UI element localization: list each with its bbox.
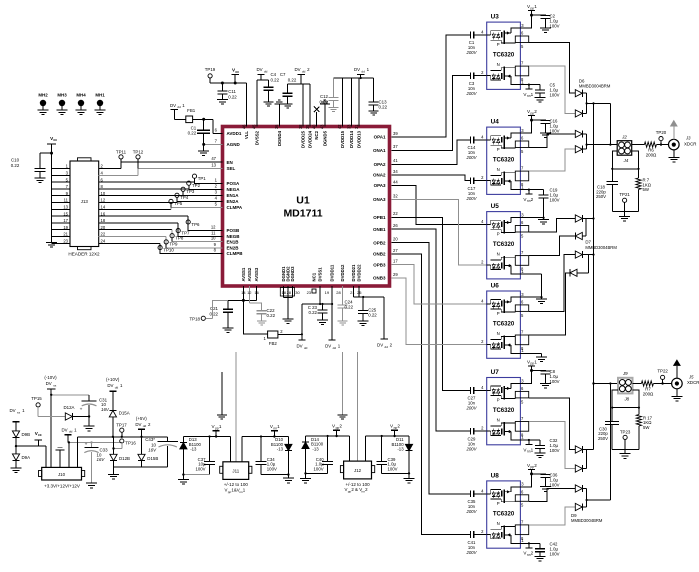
- svg-text:DV: DV: [294, 67, 300, 72]
- wire D9c/d bus to v2b to J9: [586, 489, 588, 508]
- ground (C2): [540, 27, 551, 29]
- driver U3 TC6320: [481, 14, 529, 90]
- wire Vpp2 top rail (J12 left): [306, 435, 350, 437]
- svg-text:N: N: [497, 167, 500, 172]
- diode D9a MMBD3004BRM: [575, 446, 582, 453]
- svg-text:TP8: TP8: [175, 236, 184, 241]
- J13 even pin numbers: [101, 164, 106, 244]
- svg-text:DVDD12: DVDD12: [340, 264, 345, 282]
- svg-text:DVDD14: DVDD14: [349, 130, 354, 148]
- svg-text:13: 13: [63, 205, 68, 210]
- svg-text:DV: DV: [61, 427, 67, 432]
- svg-text:2: 2: [534, 463, 537, 468]
- diode D15B: [138, 437, 158, 467]
- svg-text:D12B: D12B: [119, 456, 130, 461]
- wire J13 pin 19 to bus: [52, 229, 71, 231]
- diode D12B: [110, 437, 130, 467]
- capacitor C11 0.22: [217, 82, 237, 100]
- svg-text:U5: U5: [491, 203, 500, 210]
- wire TP21 rail: [612, 211, 638, 213]
- svg-text:DV: DV: [377, 343, 383, 348]
- svg-text:dd: dd: [264, 70, 268, 74]
- svg-text:ss: ss: [17, 410, 21, 414]
- ground stub (left of J11): [217, 372, 227, 419]
- svg-text:100V: 100V: [550, 482, 560, 487]
- svg-text:21: 21: [350, 290, 355, 295]
- capacitor C1 10n 200V: [465, 32, 486, 56]
- svg-text:D9A: D9A: [22, 455, 31, 460]
- capacitor C5 1.0u 100V: [535, 83, 560, 98]
- svg-text:0.22: 0.22: [271, 77, 280, 82]
- svg-text:(-10V): (-10V): [44, 375, 57, 380]
- wire supply bottom rail: [114, 466, 168, 468]
- svg-text:TP22: TP22: [657, 369, 668, 374]
- svg-text:P: P: [497, 232, 500, 237]
- svg-text:-13: -13: [190, 447, 197, 452]
- svg-text:5W: 5W: [643, 425, 650, 430]
- svg-text:C1: C1: [191, 125, 197, 130]
- svg-text:TC6320: TC6320: [493, 322, 515, 328]
- diode D7a MMBD3004BRM: [575, 215, 582, 222]
- svg-text:dd: dd: [177, 105, 181, 109]
- wire CLMPB (J13-24 to U1-8): [99, 242, 160, 244]
- svg-text:AVDD1: AVDD1: [227, 131, 242, 136]
- svg-text:DVSS1: DVSS1: [318, 267, 323, 282]
- svg-text:AVSS3: AVSS3: [254, 267, 259, 281]
- svg-text:200V: 200V: [465, 91, 477, 96]
- wire node bus v1: [593, 103, 595, 449]
- svg-text:100V: 100V: [267, 466, 277, 471]
- wire EN2B (J13-22 to U1-9): [99, 236, 167, 238]
- test point TP3: [181, 187, 195, 195]
- wire AVSS to FB2: [243, 300, 267, 334]
- svg-text:12: 12: [211, 224, 216, 229]
- svg-text:TC6320: TC6320: [493, 158, 515, 164]
- svg-text:+: +: [85, 443, 88, 448]
- svg-text:U8: U8: [491, 472, 500, 479]
- diode D7d MMBD3004BRM: [570, 269, 577, 276]
- svg-text:28: 28: [336, 290, 341, 295]
- svg-text:TP20: TP20: [656, 130, 667, 135]
- ground (C5): [539, 93, 541, 98]
- power flag DVdd1 (top right): [354, 67, 370, 78]
- svg-text:100V: 100V: [195, 466, 205, 471]
- test point TP15: [31, 396, 65, 417]
- svg-text:0.22: 0.22: [228, 94, 237, 99]
- wire U6 pin1 to ground: [520, 353, 541, 355]
- wire OPB2 (U1-20): [391, 243, 470, 494]
- svg-text:POSB: POSB: [227, 228, 241, 233]
- wire J13 pin 17 to bus: [52, 222, 71, 224]
- svg-text:N: N: [497, 331, 500, 336]
- diode D15A: [109, 411, 129, 438]
- wire DVDD15/14/13 rail: [333, 77, 373, 79]
- svg-text:100V: 100V: [550, 129, 560, 134]
- svg-text:100V: 100V: [550, 448, 560, 453]
- svg-text:P: P: [497, 397, 500, 402]
- capacitor C31 10 16V (polarized): [80, 395, 110, 417]
- wire U6 P-output to D7: [529, 255, 575, 312]
- U1 left pin numbers: [211, 128, 218, 253]
- wire Vnn1 top rail (J11 right): [241, 437, 243, 462]
- power flag DVdd2 (+5V) / diode D15B: [135, 416, 151, 438]
- wire C37/D13 bottom to ground: [183, 474, 209, 476]
- U1 top pin names: [244, 130, 362, 148]
- svg-text:N: N: [497, 418, 500, 423]
- svg-text:+/-12 to 100: +/-12 to 100: [346, 482, 371, 487]
- svg-text:15: 15: [63, 211, 68, 216]
- driver U4 TC6320: [481, 119, 529, 195]
- diode D6d MMBD3004BRM: [575, 146, 582, 153]
- capacitor C29 10n 200V: [465, 428, 486, 452]
- diode D9B: [12, 431, 30, 446]
- power flag Vnn1 (J11): [270, 424, 280, 436]
- svg-text:TP15: TP15: [31, 396, 42, 401]
- test point TP17: [116, 422, 127, 438]
- ground (C12): [328, 107, 338, 109]
- ground (D10): [287, 475, 289, 479]
- svg-text:0.22: 0.22: [267, 313, 276, 318]
- capacitor C10 0.22: [34, 152, 53, 178]
- capacitor C41 10n 200V: [465, 531, 486, 555]
- svg-text:NEGA: NEGA: [227, 187, 241, 192]
- svg-text:16V: 16V: [148, 447, 157, 452]
- svg-text:(+5V): (+5V): [136, 416, 147, 421]
- wire C31 top (gray): [51, 394, 89, 396]
- wire J13 pin 7 to bus: [52, 188, 71, 190]
- mounting hole MH3: [57, 93, 68, 115]
- capacitor C35 10n 200V: [465, 490, 486, 514]
- diode D9A: [12, 446, 30, 468]
- wire J13 pin 15 to bus: [52, 215, 71, 217]
- svg-text:P: P: [497, 311, 500, 316]
- svg-text:1: 1: [531, 447, 534, 452]
- svg-text:EN2A: EN2A: [227, 199, 240, 204]
- wire U4 pin1 / power flag Vnn2: [520, 189, 543, 204]
- svg-text:2: 2: [531, 551, 534, 556]
- svg-text:21: 21: [63, 232, 68, 237]
- svg-text:OPA3: OPA3: [374, 183, 386, 188]
- svg-text:OPA2: OPA2: [374, 162, 386, 167]
- U1 top pin numbers: [241, 124, 359, 129]
- power flag DVdd1 (bottom): [325, 340, 341, 350]
- svg-text:AVSS2: AVSS2: [247, 267, 252, 281]
- svg-text:J5: J5: [688, 375, 694, 380]
- svg-text:DV: DV: [135, 422, 141, 427]
- svg-text:cc: cc: [38, 433, 42, 437]
- svg-text:TP21: TP21: [619, 192, 630, 197]
- svg-text:TP9: TP9: [169, 242, 178, 247]
- diode D12A: [64, 405, 91, 420]
- power flag DVdd1 (+10V) / diode D15A: [106, 377, 123, 411]
- svg-text:200Ω: 200Ω: [646, 153, 657, 158]
- wire DVDD25/DVDD24 pins38/35: [288, 83, 310, 85]
- wire J13 pin 5 to bus: [52, 181, 71, 183]
- svg-text:XDCR: XDCR: [684, 141, 696, 146]
- svg-text:C43*: C43*: [145, 437, 155, 442]
- wire DVSS1/DVDD11 rail: [302, 303, 332, 305]
- wire pin1 / power flag Vnn1: [520, 84, 540, 99]
- svg-text:TP2: TP2: [192, 183, 201, 188]
- U1 right pin numbers: [393, 131, 398, 277]
- svg-text:39: 39: [393, 131, 398, 136]
- svg-text:SEL: SEL: [227, 166, 236, 171]
- svg-text:200V: 200V: [465, 155, 477, 160]
- svg-text:1: 1: [531, 92, 534, 97]
- svg-text:19: 19: [325, 290, 330, 295]
- test point TP5: [169, 199, 183, 207]
- capacitor C22 0.22: [257, 308, 276, 321]
- svg-text:200V: 200V: [465, 550, 477, 555]
- svg-text:J9: J9: [622, 371, 628, 376]
- svg-text:EN: EN: [227, 160, 233, 165]
- wire ONB3 (U1-29): [391, 278, 486, 345]
- diode D7b MMBD3004BRM: [575, 232, 582, 239]
- svg-text:1: 1: [534, 359, 537, 364]
- wire D6 cathode bus (c/d) to J2: [586, 134, 588, 149]
- ground (C18/R7): [624, 212, 626, 217]
- svg-text:16V: 16V: [101, 407, 110, 412]
- ground (C30/R17): [624, 450, 626, 454]
- ground (C31/D12A): [88, 417, 90, 427]
- wire POSB (J13-16 to U1-12): [99, 215, 189, 217]
- ground (C7): [283, 103, 293, 105]
- resistor R7 200ohm: [633, 381, 672, 397]
- wire D6 cathode bus (a/b): [586, 93, 588, 113]
- svg-text:dd: dd: [143, 424, 147, 428]
- ground (C33): [86, 482, 97, 484]
- wire J13 pin 9 to bus: [52, 195, 71, 197]
- svg-text:TP5: TP5: [174, 201, 183, 206]
- svg-text:DVDD22: DVDD22: [357, 264, 362, 282]
- svg-text:CLMPB: CLMPB: [227, 251, 244, 256]
- capacitor C19 1.0u 100V: [539, 188, 560, 203]
- svg-text:23: 23: [307, 290, 312, 295]
- diode D14 B1100-13: [302, 436, 324, 473]
- svg-text:dd: dd: [361, 70, 365, 74]
- wire OPA3 (U1-44): [391, 186, 486, 225]
- svg-text:0.22: 0.22: [288, 77, 297, 82]
- svg-text:13: 13: [211, 163, 216, 168]
- test point TP12: [133, 150, 144, 169]
- power flag Vpp2 (C36): [520, 463, 537, 487]
- svg-text:100V: 100V: [550, 379, 560, 384]
- wire J12 center pin (gray): [357, 352, 359, 461]
- ground (C32): [539, 448, 541, 453]
- svg-text:(+10V): (+10V): [106, 377, 120, 382]
- svg-text:200V: 200V: [465, 50, 477, 55]
- svg-text:0.22: 0.22: [209, 312, 218, 317]
- svg-text:TC6320: TC6320: [493, 242, 515, 248]
- wire DVDD11 to DVdd1 flag: [331, 286, 333, 340]
- wire DVDD21/22 to C25/DVdd2: [353, 286, 355, 297]
- svg-text:OPB2: OPB2: [373, 240, 386, 245]
- svg-text:C7: C7: [280, 72, 286, 77]
- capacitor C24 0.22 (DVDD12): [338, 286, 354, 321]
- capacitor C3 10n 200V: [465, 72, 486, 96]
- svg-text:NC2: NC2: [314, 130, 319, 139]
- ground (D9A): [11, 467, 22, 469]
- wire gray rail DVdd1: [68, 441, 122, 443]
- svg-text:12: 12: [101, 198, 106, 203]
- svg-text:HEADER 12X2: HEADER 12X2: [68, 252, 100, 257]
- svg-text:28: 28: [287, 290, 292, 295]
- test point TP6: [186, 220, 200, 231]
- svg-text:DVDD21: DVDD21: [351, 264, 356, 282]
- capacitor C23 0.22: [308, 304, 328, 320]
- svg-text:17: 17: [393, 259, 398, 264]
- svg-text:20: 20: [101, 225, 106, 230]
- svg-text:OPA1: OPA1: [374, 135, 386, 140]
- svg-text:0.22: 0.22: [345, 305, 354, 310]
- wire D7a/b bus to v1: [585, 219, 587, 237]
- wire OPA2 (U1-41): [391, 140, 470, 164]
- resistor R17 1K 5W: [636, 408, 652, 450]
- svg-text:DGND3: DGND3: [290, 266, 295, 282]
- svg-text:TC6320: TC6320: [493, 53, 515, 59]
- svg-text:1: 1: [277, 424, 280, 429]
- no-connect box NC1: [312, 289, 316, 293]
- arrow marker (XDCR B): [673, 359, 681, 378]
- wire U7 N-output to D9 (gray): [529, 422, 575, 469]
- ground (C13): [369, 110, 379, 112]
- svg-text:27: 27: [393, 248, 398, 253]
- svg-text:+3.3V/+12V/+12V: +3.3V/+12V/+12V: [44, 483, 80, 488]
- wire node v2a to J2: [609, 103, 611, 144]
- svg-text:U1: U1: [296, 195, 310, 207]
- driver U7 TC6320: [481, 369, 529, 445]
- svg-text:34: 34: [393, 169, 398, 174]
- ground (C24): [338, 320, 348, 322]
- capacitor C2 1.0u 100V: [530, 14, 560, 29]
- svg-text:100V: 100V: [388, 466, 398, 471]
- svg-text:25: 25: [357, 290, 362, 295]
- svg-text:TP18: TP18: [190, 317, 201, 322]
- power flag Vpp2 (C16): [520, 109, 537, 133]
- wire J11 center pin (gray): [235, 352, 237, 462]
- ground (D14): [305, 473, 307, 478]
- svg-text:TP16: TP16: [125, 441, 136, 446]
- svg-text:TP3: TP3: [186, 189, 195, 194]
- svg-text:EN1A: EN1A: [227, 193, 240, 198]
- svg-text:16: 16: [254, 290, 259, 295]
- svg-text:MH1: MH1: [95, 93, 105, 98]
- svg-text:14: 14: [241, 290, 246, 295]
- test point TP10: [158, 246, 174, 254]
- power flag DVdd1 (gray rail): [61, 427, 77, 442]
- svg-text:2: 2: [397, 424, 400, 429]
- svg-text:TP1: TP1: [198, 176, 207, 181]
- diode D9d MMBD3004BRM: [575, 503, 582, 510]
- wire J13 pin 21 to bus: [52, 236, 71, 238]
- svg-text:J11: J11: [232, 468, 239, 473]
- svg-text:+/-12 to 100: +/-12 to 100: [224, 482, 249, 487]
- wire ONB2 (U1-27): [391, 254, 470, 535]
- svg-text:200V: 200V: [465, 196, 477, 201]
- no-connect X (NC2 pin40): [316, 112, 318, 127]
- svg-text:J3: J3: [685, 136, 691, 141]
- svg-text:TP17: TP17: [116, 422, 127, 427]
- svg-text:XDCR: XDCR: [687, 380, 699, 385]
- ground stub (above J12, gray feed): [338, 352, 348, 419]
- test point TP19: [205, 67, 235, 83]
- wire AVSS1/2/3 junction: [242, 286, 244, 300]
- power flag DVdd2 (top): [294, 67, 310, 84]
- svg-text:46: 46: [241, 124, 246, 129]
- capacitor C16 1.0u 100V: [530, 119, 560, 134]
- svg-text:29: 29: [393, 272, 398, 277]
- connector J10: [39, 467, 85, 488]
- svg-text:OPB3: OPB3: [373, 262, 386, 267]
- capacitor C7 0.22: [280, 72, 297, 104]
- ground (U5 pin1/U6 pin3): [541, 297, 543, 299]
- svg-text:0.22: 0.22: [188, 131, 197, 136]
- svg-text:DVSS2: DVSS2: [254, 130, 259, 145]
- svg-text:TP23: TP23: [620, 429, 631, 434]
- svg-text:30: 30: [295, 290, 300, 295]
- svg-text:1: 1: [219, 424, 222, 429]
- svg-text:FB1: FB1: [187, 108, 196, 113]
- capacitor C12 0.22: [319, 78, 338, 108]
- svg-text:DVDD13: DVDD13: [357, 130, 362, 148]
- svg-text:47: 47: [211, 156, 216, 161]
- svg-text:AGND: AGND: [227, 142, 241, 147]
- test point TP9: [164, 240, 178, 248]
- ground (DGND4 pin36): [278, 104, 280, 127]
- wire D9a/b bus to v1: [586, 450, 588, 469]
- capacitor C43 10 16V (polarized): [145, 437, 178, 467]
- ground (C22): [257, 320, 267, 322]
- capacitor C39 1.0u 100V: [376, 436, 397, 473]
- mounting hole MH2: [38, 93, 49, 115]
- svg-text:MMBD3004BRM: MMBD3004BRM: [585, 245, 617, 250]
- ground (C23): [317, 319, 328, 321]
- svg-text:-13: -13: [277, 447, 284, 452]
- svg-text:TP4: TP4: [180, 195, 189, 200]
- svg-text:5W: 5W: [643, 187, 650, 192]
- svg-text:D15B: D15B: [147, 456, 158, 461]
- capacitor C40 1.0u 100V: [314, 436, 333, 473]
- svg-text:0.22: 0.22: [379, 105, 388, 110]
- svg-text:250V: 250V: [596, 194, 606, 199]
- svg-text:ONA2: ONA2: [373, 173, 386, 178]
- test point TP7: [176, 229, 190, 237]
- diode D6c MMBD3004BRM: [575, 130, 582, 137]
- test point TP2: [187, 181, 201, 189]
- svg-text:DV: DV: [256, 67, 262, 72]
- connector J9 (jumper): [618, 371, 633, 393]
- U1 bottom pin numbers: [241, 290, 362, 295]
- svg-text:MMBD3004BRM: MMBD3004BRM: [579, 84, 611, 89]
- wire CLMPA (J13-14 to U1-5): [99, 208, 171, 210]
- ground (XDCR A): [673, 150, 675, 158]
- capacitor C21 0.22: [209, 300, 233, 328]
- wire D7c/d bus to v1: [588, 255, 590, 273]
- ground (header bus): [46, 242, 57, 244]
- svg-text:TP6: TP6: [191, 222, 200, 227]
- svg-text:J12: J12: [354, 468, 362, 473]
- connector J13 HEADER 12X2: [68, 158, 100, 257]
- arrow marker (XDCR A): [670, 120, 678, 140]
- svg-text:dd: dd: [384, 345, 388, 349]
- svg-text:J8: J8: [623, 397, 629, 402]
- wire DVSS2 pin45: [257, 79, 269, 81]
- svg-text:45: 45: [252, 124, 257, 129]
- svg-text:100V: 100V: [550, 24, 560, 29]
- svg-text:FB2: FB2: [269, 341, 278, 346]
- diode D9b MMBD3004BRM: [575, 465, 582, 472]
- svg-text:TP11: TP11: [116, 150, 127, 155]
